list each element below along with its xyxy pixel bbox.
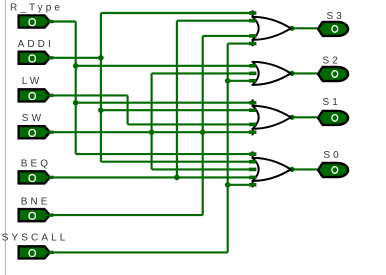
svg-text:SW: SW: [22, 113, 44, 124]
svg-text:S1: S1: [323, 97, 341, 108]
svg-text:R_Type: R_Type: [10, 3, 63, 14]
svg-text:ADDI: ADDI: [18, 39, 54, 50]
svg-text:BNE: BNE: [21, 197, 51, 208]
svg-text:S3: S3: [327, 11, 345, 22]
svg-text:BEQ: BEQ: [21, 159, 51, 170]
svg-text:SYSCALL: SYSCALL: [2, 232, 69, 243]
svg-text:S0: S0: [323, 150, 341, 161]
svg-text:LW: LW: [22, 76, 42, 87]
svg-text:S2: S2: [323, 56, 341, 67]
